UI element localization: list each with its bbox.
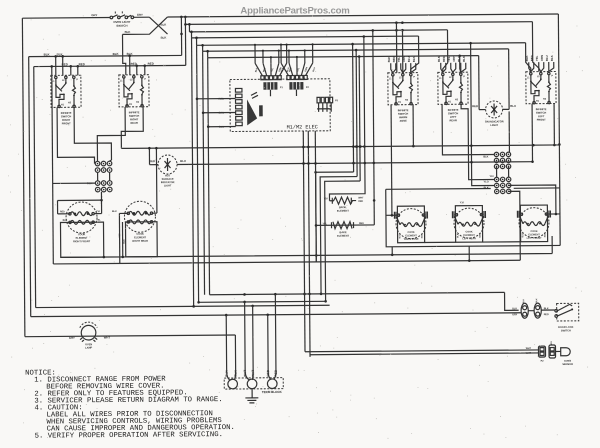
svg-text:YEL: YEL <box>397 56 401 62</box>
wire bus bottom 2 <box>53 260 520 264</box>
wire on light to block A <box>508 111 510 152</box>
svg-text:BLK: BLK <box>161 36 167 40</box>
wire stub L3 <box>188 24 190 31</box>
svg-text:M1/M2 ELEC: M1/M2 ELEC <box>287 124 318 130</box>
ground symbol <box>245 389 258 403</box>
svg-text:BLU: BLU <box>407 56 411 62</box>
door lock switch <box>557 303 579 321</box>
svg-text:LEFT: LEFT <box>538 114 545 118</box>
svg-text:WHT: WHT <box>526 353 532 355</box>
wire broil left feed over element <box>328 36 365 200</box>
wire switch1 H1 to grid1 <box>57 107 94 164</box>
wire sensor stub <box>556 350 561 352</box>
wire long left drop to connector <box>51 66 54 183</box>
wire drop left of rr 2 <box>121 222 123 257</box>
wire bundle vertical 2 <box>197 45 199 302</box>
wire rf row1 left <box>58 213 70 215</box>
door lock connectors <box>521 303 528 318</box>
wire switch4 H1 to block A <box>442 104 494 155</box>
svg-text:BLK: BLK <box>550 55 554 61</box>
wire grid1 to grid2 <box>98 172 110 180</box>
wire nest wrap 2 <box>320 177 358 294</box>
wire bundle vertical 1 <box>192 38 194 306</box>
wire on light left stub RED <box>479 109 485 111</box>
wire drop to switch 4 feeds <box>442 30 447 73</box>
svg-text:SWITCH: SWITCH <box>561 329 571 332</box>
wire control drop 3 <box>315 131 316 262</box>
svg-text:AppliancePartsPros.com: AppliancePartsPros.com <box>240 6 349 17</box>
svg-text:BLK: BLK <box>63 220 68 222</box>
svg-text:WHT: WHT <box>526 348 532 350</box>
wire switch to crossover <box>134 16 150 18</box>
wire bundle vertical 4 <box>208 58 210 295</box>
wire risers above switch at 439 <box>441 63 443 73</box>
svg-text:INFINITE: INFINITE <box>448 108 459 112</box>
wire drop to switch4 right riser <box>460 56 461 73</box>
svg-text:WARM: WARM <box>399 115 407 119</box>
wire element feed drop <box>57 201 59 214</box>
svg-text:SWITCH: SWITCH <box>398 112 408 116</box>
wire rf row1 right <box>94 213 102 215</box>
connector grid G2 <box>95 181 112 192</box>
wire on light right riser <box>508 49 510 109</box>
svg-text:BLU: BLU <box>510 104 516 108</box>
wire term feed RED a <box>268 315 271 380</box>
wire switch4 H2 to block B row1 <box>461 104 494 180</box>
svg-text:RED: RED <box>274 369 278 376</box>
wire bundle vertical 3 <box>203 51 205 294</box>
connector body P1 <box>263 82 277 90</box>
wire risers above switch at 527 <box>529 62 531 72</box>
svg-text:BLK: BLK <box>112 211 117 213</box>
svg-text:BLK: BLK <box>124 239 126 244</box>
svg-text:ELEMENT: ELEMENT <box>337 210 349 213</box>
svg-text:ELEMENT: ELEMENT <box>337 235 349 238</box>
wire sensor line 2 <box>308 131 310 357</box>
wire bus L3 <box>189 30 447 32</box>
svg-text:RED: RED <box>79 62 85 66</box>
svg-text:RED: RED <box>392 56 396 62</box>
svg-text:LEFT REAR: LEFT REAR <box>462 237 476 240</box>
wire enclosure top left segment <box>386 188 491 191</box>
wire BLK feed line switches 1-2 <box>29 55 182 56</box>
wire stub L5 <box>196 38 198 45</box>
svg-text:INFINITE: INFINITE <box>398 108 409 112</box>
svg-text:BLK: BLK <box>536 298 538 303</box>
wire far left drop <box>52 183 55 263</box>
cook element right rear <box>124 201 155 232</box>
wire switch2 H1 to grid1 <box>97 107 125 161</box>
wire into control ORN <box>203 112 235 114</box>
wire on light left riser <box>478 56 480 110</box>
connector header P3 <box>317 97 320 103</box>
wire left drop to grid2 <box>53 182 96 184</box>
connector grid G1 <box>95 161 112 172</box>
wire nest wrap 1 <box>316 172 355 262</box>
svg-text:RED: RED <box>358 201 363 203</box>
wire enclosure to bus stub 2 <box>468 246 470 260</box>
wire riser to switch3 <box>395 23 397 73</box>
svg-text:RED: RED <box>545 232 547 237</box>
wire drop to switch 3 feeds <box>411 36 419 73</box>
wire term feed WHT b <box>252 306 254 380</box>
svg-text:RIGHT REAR: RIGHT REAR <box>132 240 148 243</box>
svg-text:INFINITE: INFINITE <box>129 110 140 114</box>
svg-text:RIGHT: RIGHT <box>62 118 71 122</box>
svg-text:YEL: YEL <box>323 223 328 225</box>
wire border 3 RED loop <box>34 67 36 308</box>
svg-text:YEL: YEL <box>447 56 451 62</box>
svg-text:SWITCH: SWITCH <box>116 24 127 28</box>
svg-text:REAR: REAR <box>131 121 139 125</box>
wire bus low 3 <box>36 305 330 307</box>
svg-text:RED: RED <box>530 55 534 61</box>
wire element stub left <box>386 214 397 216</box>
wire into control RED <box>197 98 235 100</box>
svg-text:WHT: WHT <box>358 197 364 199</box>
svg-text:LIGHT: LIGHT <box>164 184 172 187</box>
wire stub L4 <box>190 32 192 38</box>
svg-text:REAR: REAR <box>449 118 457 122</box>
svg-text:SWITCH: SWITCH <box>536 111 546 115</box>
wire crossover diagonal 2, BLK <box>122 17 167 34</box>
wire bus bottom 1 <box>61 236 553 257</box>
wire term feed RED b <box>273 294 276 379</box>
wire into control BLU <box>208 126 235 128</box>
svg-text:INFINITE: INFINITE <box>536 107 547 111</box>
connector block B <box>494 177 511 194</box>
svg-text:ORN: ORN <box>402 56 406 62</box>
resistor bake element <box>333 222 352 229</box>
wire riser to switch3 b <box>401 30 403 72</box>
wire rr row1 left <box>119 212 128 214</box>
svg-text:LEFT FRONT: LEFT FRONT <box>527 237 542 240</box>
svg-text:YEL: YEL <box>96 220 101 222</box>
oven lamp <box>81 325 96 340</box>
svg-text:BLK: BLK <box>113 52 120 56</box>
wire bus L6 <box>203 49 509 51</box>
svg-text:RED: RED <box>148 62 154 66</box>
wire nest vertical a <box>353 44 354 172</box>
wire switch5 left leg <box>531 104 533 162</box>
wire bus L5 <box>197 43 526 46</box>
svg-text:RED: RED <box>480 233 482 238</box>
wire warm zone to left rear bottom link <box>425 241 456 243</box>
cook element left rear <box>455 206 482 243</box>
wire door lock feed BLK <box>210 292 505 294</box>
wire bus mid 1 <box>121 145 559 148</box>
wire oven sensor line 2 RED <box>310 353 538 355</box>
svg-text:GRY: GRY <box>91 13 97 17</box>
svg-text:BLK: BLK <box>399 234 401 239</box>
wire rr row1 right up to bus <box>151 148 157 213</box>
svg-text:BLK: BLK <box>234 370 238 377</box>
svg-text:BLK: BLK <box>522 233 524 238</box>
wire term feed BLK b <box>234 335 236 380</box>
svg-text:BLK: BLK <box>412 56 416 62</box>
wire BLK drop to infinite switch 2 <box>123 34 126 75</box>
svg-text:Y10: Y10 <box>489 175 494 178</box>
wire bus L2 <box>185 22 532 25</box>
wire term feed BLK a <box>226 315 230 380</box>
wire switch3 right leg to bus <box>412 105 414 146</box>
svg-text:BLK: BLK <box>483 156 488 159</box>
svg-text:GRY: GRY <box>69 336 75 340</box>
wire element stub right <box>547 213 559 215</box>
enclosure right front element <box>60 222 103 257</box>
wire risers switch2 b <box>137 66 145 75</box>
wire bus L7 <box>208 56 479 58</box>
wire block B row3 down to bus <box>509 191 520 260</box>
wire bus low 2 <box>199 300 326 303</box>
oven sensor connectors <box>538 346 545 357</box>
cook element warm zone <box>397 206 424 243</box>
svg-text:BLK: BLK <box>125 30 131 34</box>
wire risers switch1 right pair <box>71 66 78 75</box>
svg-text:BLK: BLK <box>161 23 167 27</box>
svg-text:SWITCH: SWITCH <box>129 114 139 118</box>
wire sensor line 1 <box>303 131 305 352</box>
wire switch5 right leg to bus <box>553 104 555 145</box>
broil terminal ticks <box>332 198 351 204</box>
infinite switch SW4 left rear <box>438 72 468 104</box>
wire bake leads <box>316 224 374 226</box>
svg-text:RED: RED <box>359 223 364 225</box>
svg-text:RED: RED <box>422 233 424 238</box>
svg-text:YEL: YEL <box>535 55 539 61</box>
wire switch1 H2 to grid1 <box>74 107 111 161</box>
wire top feed to oven light switch, GRY <box>22 16 110 19</box>
wire stub L7 <box>207 51 209 57</box>
wire risers switch1 left pair <box>56 56 63 75</box>
indicator hot surface light <box>158 155 177 174</box>
svg-text:RED: RED <box>60 211 65 213</box>
wire riser feed RED line <box>184 17 186 65</box>
wedge symbol inside control <box>247 99 257 125</box>
wire switch2 H2 to bus <box>121 107 143 149</box>
oven light switch <box>110 10 134 18</box>
svg-text:FRONT: FRONT <box>62 121 71 125</box>
wire door lock corner <box>505 292 519 310</box>
wire nest drop to block B row2 <box>471 43 495 186</box>
wire to door lock switch <box>541 309 554 311</box>
wire broil right feed <box>373 30 375 224</box>
wire between door lock connectors <box>528 310 534 312</box>
svg-text:BLU: BLU <box>457 56 461 62</box>
wire riser switch2 a <box>129 56 131 75</box>
wire element feed horizontal <box>58 199 102 201</box>
wire oven lamp line <box>25 335 235 337</box>
svg-text:BLK: BLK <box>225 370 229 377</box>
svg-text:RED: RED <box>266 369 270 376</box>
connector body P2 <box>289 82 303 90</box>
svg-text:BLU: BLU <box>180 159 186 163</box>
connector header P2 <box>287 76 290 80</box>
svg-text:WHT: WHT <box>243 370 247 377</box>
terminal block <box>224 378 283 389</box>
wire enclosure to bus stub <box>391 247 393 255</box>
svg-text:BLU: BLU <box>545 55 549 61</box>
connector strip inside control <box>235 88 242 92</box>
infinite switch SW1 right front <box>51 75 81 107</box>
svg-text:LIGHT: LIGHT <box>490 123 498 127</box>
svg-text:WHT: WHT <box>104 335 111 339</box>
cook element left front <box>520 205 547 242</box>
wire border 2 BLK loop <box>29 57 31 317</box>
wire stub L6 <box>202 45 204 51</box>
wire bus low 4 to door lock <box>31 313 521 317</box>
svg-text:VIO: VIO <box>551 341 553 345</box>
wire outer border left <box>22 18 25 336</box>
svg-text:RIGHT FRONT: RIGHT FRONT <box>73 240 91 243</box>
svg-text:SWITCH: SWITCH <box>448 111 458 115</box>
svg-text:ORN: ORN <box>452 56 456 62</box>
wire right border drop <box>558 14 560 245</box>
wire enclosure left and bottom <box>386 188 560 247</box>
svg-text:WARM ZONE: WARM ZONE <box>404 238 419 241</box>
wire nest vertical b <box>355 50 358 176</box>
svg-text:RED: RED <box>149 159 155 163</box>
wire drop right to switch5 riser <box>532 22 538 72</box>
connector block A <box>494 152 511 169</box>
enclosure right rear element <box>125 222 157 257</box>
svg-text:LAMP: LAMP <box>85 347 92 350</box>
svg-text:BLK: BLK <box>525 55 529 61</box>
wire crossover diagonal 1, BLK <box>149 17 167 34</box>
svg-text:ON INDICATOR: ON INDICATOR <box>485 119 504 123</box>
wire bus L4 <box>192 36 419 38</box>
svg-text:ZONE: ZONE <box>400 119 408 123</box>
wire riser feed BLK line <box>180 17 182 55</box>
svg-text:BLK: BLK <box>457 233 459 238</box>
svg-text:LEFT: LEFT <box>450 115 457 119</box>
wire bus mid 2 BLU <box>177 162 533 165</box>
connector header P1 <box>261 76 264 80</box>
wire term feed WHT a <box>245 302 250 380</box>
wire block A to block B <box>497 167 509 178</box>
wire hot light left leg <box>148 148 150 164</box>
wire nest wrap 3 <box>325 181 361 301</box>
svg-text:SENSOR: SENSOR <box>562 363 573 366</box>
wire grid2 to element feed <box>100 192 102 214</box>
wire block B to left front element <box>509 185 556 214</box>
wire nest vertical c <box>358 57 361 181</box>
svg-text:WHT: WHT <box>251 370 255 377</box>
svg-text:SWITCH: SWITCH <box>61 114 71 118</box>
svg-text:YLO: YLO <box>484 181 489 184</box>
infinite switch SW2 right rear <box>119 75 149 107</box>
cook element right front <box>66 202 97 233</box>
wire drop left of rr <box>118 213 120 263</box>
svg-text:RIGHT: RIGHT <box>130 117 139 121</box>
wire on light right stub BLU <box>503 108 509 110</box>
indicator on light <box>486 101 503 118</box>
svg-text:BLK: BLK <box>387 57 391 63</box>
svg-text:RED: RED <box>442 56 446 62</box>
control M1/M2 ELEC box <box>230 79 330 132</box>
svg-text:ORN: ORN <box>540 55 544 61</box>
infinite switch SW5 left front <box>526 71 556 103</box>
svg-text:BLK: BLK <box>44 52 51 56</box>
svg-text:BLK: BLK <box>484 187 489 190</box>
wire hot light RED stub <box>150 164 158 166</box>
svg-text:BLK: BLK <box>437 56 441 62</box>
wire risers above switch at 389 <box>391 63 393 73</box>
wire enclosure top right segment <box>514 187 560 189</box>
svg-text:TERM BLOCK: TERM BLOCK <box>262 390 283 394</box>
svg-text:RED: RED <box>472 104 478 108</box>
wire oven sensor line 1 WHT <box>305 350 538 352</box>
wire bus L1 top BLK <box>167 14 558 17</box>
wire left rear to left front bottom link <box>483 241 521 243</box>
resistor broil element <box>329 197 356 204</box>
svg-text:RED: RED <box>544 313 549 316</box>
svg-text:5. VERIFY PROPER OPERATION AFT: 5. VERIFY PROPER OPERATION AFTER SERVICI… <box>35 431 223 440</box>
wire switch3 left leg to warm zone element <box>390 105 393 215</box>
infinite switch SW3 single <box>388 73 418 105</box>
wire drop to switch5 feeds <box>526 43 531 72</box>
svg-text:BLK: BLK <box>523 299 525 304</box>
svg-text:GRY: GRY <box>137 13 143 17</box>
svg-text:BLK: BLK <box>462 56 466 62</box>
svg-text:INFINITE: INFINITE <box>61 111 72 115</box>
svg-text:GRY: GRY <box>512 313 518 316</box>
svg-text:FRONT: FRONT <box>537 118 546 122</box>
wire RED feed line switches 1-2 <box>34 65 186 66</box>
bake terminal ticks <box>331 222 353 228</box>
